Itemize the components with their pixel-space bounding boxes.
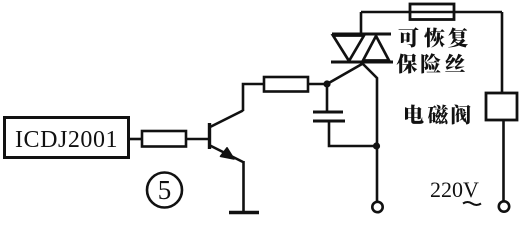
ground — [229, 211, 259, 214]
terminal T2 circle — [499, 201, 509, 211]
node B junction dot — [373, 142, 380, 149]
resistor R1 — [142, 131, 186, 147]
IC U1 box ICDJ2001 — [5, 118, 129, 158]
label diancifa (solenoid valve) — [405, 105, 471, 125]
terminal T1 circle — [372, 202, 382, 212]
wire triac top lead — [360, 12, 363, 34]
capacitor C1 — [313, 112, 345, 121]
wire node A to C1 — [326, 84, 329, 111]
wire Q1 collector to R2 — [243, 84, 264, 111]
transistor Q1 — [210, 111, 244, 163]
wire Q1 emitter to ground — [242, 161, 245, 211]
wire C1 to MT2 rail — [329, 121, 375, 146]
wire YV to terminal — [502, 120, 505, 201]
wire node A to triac gate — [327, 64, 362, 84]
solenoid valve YV box — [486, 93, 517, 120]
svg-text:5: 5 — [158, 175, 172, 205]
triac VT — [331, 34, 393, 62]
svg-text:220V: 220V — [430, 177, 479, 202]
label 220V — [430, 177, 481, 205]
wire R2 to node A — [308, 83, 327, 86]
wire U1 to R1 — [129, 138, 142, 141]
fuse FU — [410, 4, 454, 20]
wire R1 to Q1 base — [186, 138, 208, 141]
wire top rail — [361, 11, 502, 14]
resistor R2 — [264, 77, 308, 92]
wire right rail down — [501, 12, 504, 92]
label circled 5 — [147, 173, 182, 208]
node A junction dot — [323, 80, 330, 87]
svg-text:ICDJ2001: ICDJ2001 — [15, 127, 118, 153]
wire triac MT2 down — [362, 63, 377, 202]
label baoxiansi (fuse) — [397, 53, 465, 73]
label kehuifu (resettable) — [399, 27, 469, 47]
